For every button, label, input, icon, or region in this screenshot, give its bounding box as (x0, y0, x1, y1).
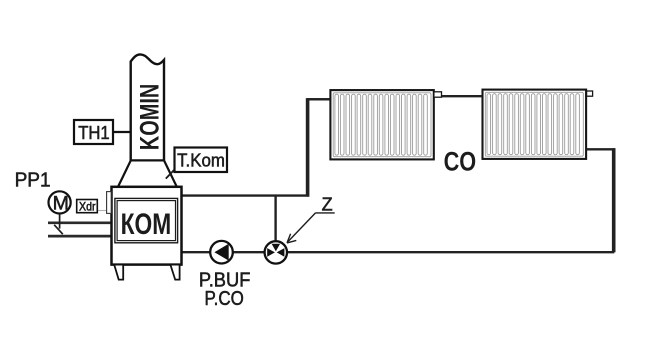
boiler inner frame outer (115, 198, 178, 242)
leader underline for Z (316, 212, 335, 214)
valve triangle top (272, 244, 281, 252)
wire: M drop line (59, 214, 61, 229)
valve Z circle (265, 241, 287, 263)
leader diagonal for Z (288, 213, 316, 242)
leader line from T.Kom to hood (166, 168, 176, 179)
wire: valve drop from supply line to 3-way valve (274, 195, 276, 244)
wire: supply pipe boiler to riser to radiator CO (182, 99, 331, 195)
wire: TH1 connector to chimney (113, 131, 131, 133)
sensor pocket on boiler (107, 192, 112, 214)
wire: return from radiator 2 down right side (586, 149, 614, 252)
radiator 2 body (483, 90, 587, 159)
leader arrowhead for Z (287, 234, 296, 243)
svg-text:Z: Z (322, 194, 333, 214)
wire: thin gray link Xdr to pocket (97, 210, 107, 212)
radiator 1 body (330, 90, 433, 159)
sensor box Xdr (77, 200, 98, 213)
boiler leg right (170, 265, 179, 280)
sensor box T.Kom (175, 148, 228, 173)
motor M circle (49, 191, 71, 213)
tick on M drop line (54, 225, 63, 234)
valve triangle left (267, 248, 275, 257)
wire: connector radiator1 to radiator2 (434, 95, 483, 97)
svg-text:TH1: TH1 (78, 123, 110, 143)
sensor box TH1 (74, 120, 113, 144)
radiator 1 inner frame (333, 93, 431, 157)
svg-text:P.CO: P.CO (205, 288, 244, 310)
radiator 2 inner frame (485, 92, 583, 156)
pump triangle (214, 244, 228, 261)
wire: left pipe 1 into boiler (48, 221, 112, 224)
pump P circle (210, 241, 233, 264)
radiator 1 fins (335, 94, 427, 155)
valve triangle right (277, 248, 285, 257)
svg-text:PP1: PP1 (15, 170, 51, 192)
svg-text:KOMIN: KOMIN (134, 84, 164, 151)
radiator 2 vent square (587, 91, 593, 96)
wire: return/pump line boiler to far right (182, 251, 615, 253)
svg-text:T.Kom: T.Kom (177, 150, 225, 171)
boiler hood (118, 160, 178, 187)
boiler leg left (114, 265, 123, 280)
radiator 1 vent square (434, 92, 442, 97)
boiler KOM outer box (112, 187, 182, 265)
wire: left pipe 2 into boiler (48, 235, 112, 238)
chimney KOMIN (131, 54, 164, 160)
svg-text:КОМ: КОМ (121, 208, 172, 241)
svg-text:M: M (53, 192, 69, 214)
radiator 2 fins (487, 94, 579, 155)
boiler inner frame inner (117, 201, 175, 241)
svg-text:CO: CO (444, 147, 477, 177)
svg-text:Xdr: Xdr (79, 199, 96, 213)
